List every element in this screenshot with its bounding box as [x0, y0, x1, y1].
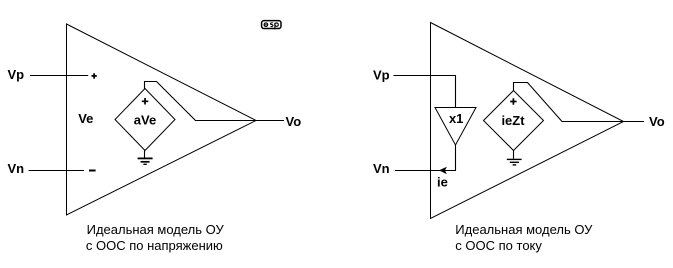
output wire Vo (left): [256, 120, 284, 122]
svg-text:Vn: Vn: [8, 161, 25, 176]
polarity + of ieZt source: [510, 98, 516, 105]
ground (left): [138, 158, 153, 164]
svg-text:x1: x1: [449, 111, 463, 126]
wire source bottom to ground (left): [144, 151, 146, 158]
wire Vn input (left): [29, 170, 85, 172]
buffer x1 triangle: [435, 108, 476, 146]
wire source top to output node (right): [514, 83, 624, 122]
svg-text:Vo: Vo: [649, 114, 665, 129]
wire Vp input to buffer (right): [394, 76, 456, 108]
wire buffer output to Vn node (right): [395, 145, 456, 171]
wire source top to output node (left): [145, 82, 257, 121]
logo esp: [262, 21, 281, 30]
wire source bottom to ground (right): [513, 151, 515, 159]
svg-text:Vn: Vn: [373, 161, 390, 176]
op-amp U1 triangle (left, voltage-feedback model): [67, 24, 257, 215]
svg-text:Vp: Vp: [8, 67, 25, 82]
current arrow ie: [439, 167, 447, 174]
ground (right): [507, 159, 522, 165]
dependent source ieZt (diamond): [484, 91, 544, 151]
svg-text:с ООС по току: с ООС по току: [455, 238, 542, 253]
op-amp U2 triangle (right, current-feedback model): [431, 23, 624, 219]
svg-text:ieZt: ieZt: [501, 113, 525, 128]
wire Vp input (left): [30, 75, 88, 77]
svg-text:Ve: Ve: [78, 111, 93, 126]
output wire Vo (right): [624, 121, 645, 123]
inverting input - mark (left): [89, 170, 96, 172]
svg-text:Идеальная модель ОУ: Идеальная модель ОУ: [455, 222, 593, 237]
svg-text:с ООС по напряжению: с ООС по напряжению: [86, 238, 223, 253]
svg-text:Vo: Vo: [286, 114, 302, 129]
dependent source aVe (diamond): [115, 89, 175, 151]
noninverting input + mark (left): [92, 73, 97, 78]
polarity + of aVe source: [142, 98, 149, 105]
svg-text:Vp: Vp: [373, 68, 390, 83]
svg-text:Идеальная модель ОУ: Идеальная модель ОУ: [87, 222, 225, 237]
svg-text:ie: ie: [437, 175, 448, 190]
svg-text:aVe: aVe: [134, 112, 156, 127]
